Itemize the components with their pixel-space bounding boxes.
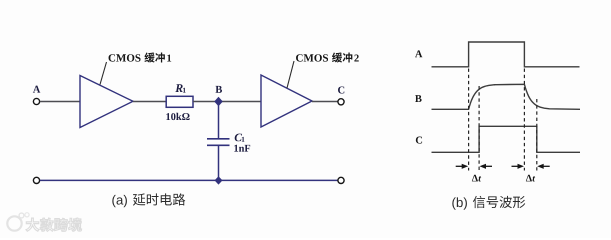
- junction node B: [214, 97, 223, 106]
- dashed line at C falling edge: [536, 99, 538, 171]
- junction capacitor-bottom rail: [215, 176, 223, 184]
- terminal bottom-left: [33, 177, 39, 183]
- wire capacitor to bottom rail: [218, 145, 220, 180]
- waveform label C: [416, 137, 422, 144]
- capacitor C1 plates: [207, 139, 230, 146]
- arrow right toward second dashed pair: [512, 164, 525, 169]
- label CMOS buffer 2 (CMOS 缓冲2): [296, 52, 359, 62]
- resistor R1 body: [166, 96, 193, 107]
- arrow right toward first dashed pair: [456, 164, 469, 169]
- terminal C (output node C): [338, 99, 344, 105]
- label CMOS buffer 1 (CMOS 缓冲1): [109, 52, 172, 62]
- waveform A trace: [432, 42, 580, 67]
- node B label: [215, 86, 222, 93]
- arrow left toward second dashed pair: [537, 164, 550, 169]
- leader line for CMOS buffer 2 label: [287, 61, 294, 88]
- caption (b) signal waveforms: [452, 196, 525, 210]
- label R1: [175, 84, 185, 92]
- delta-t label 2: [526, 175, 535, 182]
- dashed line at A rising edge: [468, 69, 470, 171]
- wire buffer1 output to resistor R1: [133, 101, 166, 103]
- wire buffer2 output to node C: [312, 101, 338, 103]
- wire A to buffer1 input: [40, 101, 80, 103]
- terminal bottom-right: [338, 177, 344, 183]
- waveform label A: [415, 50, 422, 57]
- waveform label B: [415, 95, 422, 102]
- delta-t label 1: [472, 175, 481, 182]
- waveform C trace: [432, 126, 581, 152]
- leader line for CMOS buffer 1 label: [100, 62, 107, 85]
- waveform B trace (RC charge/discharge): [432, 84, 581, 109]
- value label 1nF: [234, 145, 250, 152]
- dashed line at A falling edge: [523, 69, 525, 171]
- op-amp buffer U2 (CMOS buffer 2 triangle): [261, 75, 312, 127]
- op-amp buffer U1 (CMOS buffer 1 triangle): [80, 76, 133, 128]
- label C1: [235, 134, 245, 142]
- arrow left toward first dashed pair: [480, 164, 493, 169]
- dashed line at C rising edge: [478, 86, 480, 171]
- node C label: [338, 86, 344, 93]
- watermark logo: [7, 213, 29, 231]
- bottom rail wire: [40, 179, 338, 181]
- node A label: [33, 86, 40, 93]
- watermark text: [26, 218, 82, 231]
- wire node B down to capacitor C1: [218, 102, 220, 139]
- value label 10k ohm: [166, 113, 189, 120]
- caption (a) delay circuit: [112, 193, 185, 207]
- terminal A (input node A): [33, 98, 39, 104]
- wire resistor to node B to buffer2: [193, 101, 261, 103]
